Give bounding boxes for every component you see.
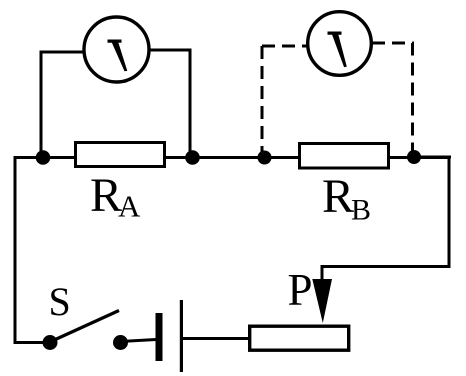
- dashed wire from voltmeter U2 left terminal down to node C: [262, 46, 307, 152]
- switch S right terminal dot: [113, 335, 128, 350]
- node D (junction dot right of RB): [407, 150, 421, 164]
- wire from voltmeter U1 right terminal down to node B: [148, 50, 190, 158]
- voltmeter U1 V symbol: [108, 40, 128, 72]
- battery BT1 positive plate (long thin): [180, 300, 183, 372]
- rheostat slider arrow P: [312, 279, 332, 323]
- svg-text:R: R: [322, 170, 354, 223]
- wire from node A up-left to voltmeter U1 left terminal: [41, 52, 85, 158]
- wire from switch to battery: [121, 340, 156, 342]
- svg-text:A: A: [118, 189, 141, 224]
- dashed wire from voltmeter U2 right terminal down to node D: [372, 43, 413, 151]
- wire right branch (from node D down to rheostat slider): [322, 157, 451, 281]
- main top wire (right segment): [388, 156, 451, 159]
- resistor RA body: [76, 143, 165, 167]
- main top wire (left segment): [14, 156, 77, 159]
- voltmeter U2 V symbol: [328, 32, 347, 68]
- switch S left terminal dot: [43, 335, 58, 350]
- svg-text:B: B: [351, 194, 371, 227]
- voltmeter U2 (right voltmeter circle, dashed connection): [308, 12, 372, 76]
- main top wire (middle segment between RA and RB): [165, 156, 301, 159]
- node B (junction dot right of RA): [185, 150, 200, 165]
- svg-text:S: S: [49, 279, 71, 324]
- battery BT1 negative plate (short thick): [156, 313, 163, 361]
- resistor RB body: [300, 144, 389, 169]
- rheostat R body: [250, 326, 349, 350]
- node A (junction dot left of RA): [36, 150, 51, 165]
- svg-text:P: P: [288, 265, 313, 315]
- switch S blade: [52, 311, 119, 342]
- voltmeter U1 (left voltmeter circle): [84, 17, 149, 82]
- wire from battery to rheostat: [183, 337, 250, 340]
- wire left branch (down from main line to switch): [15, 156, 44, 343]
- node C (junction dot left of RB): [258, 151, 272, 165]
